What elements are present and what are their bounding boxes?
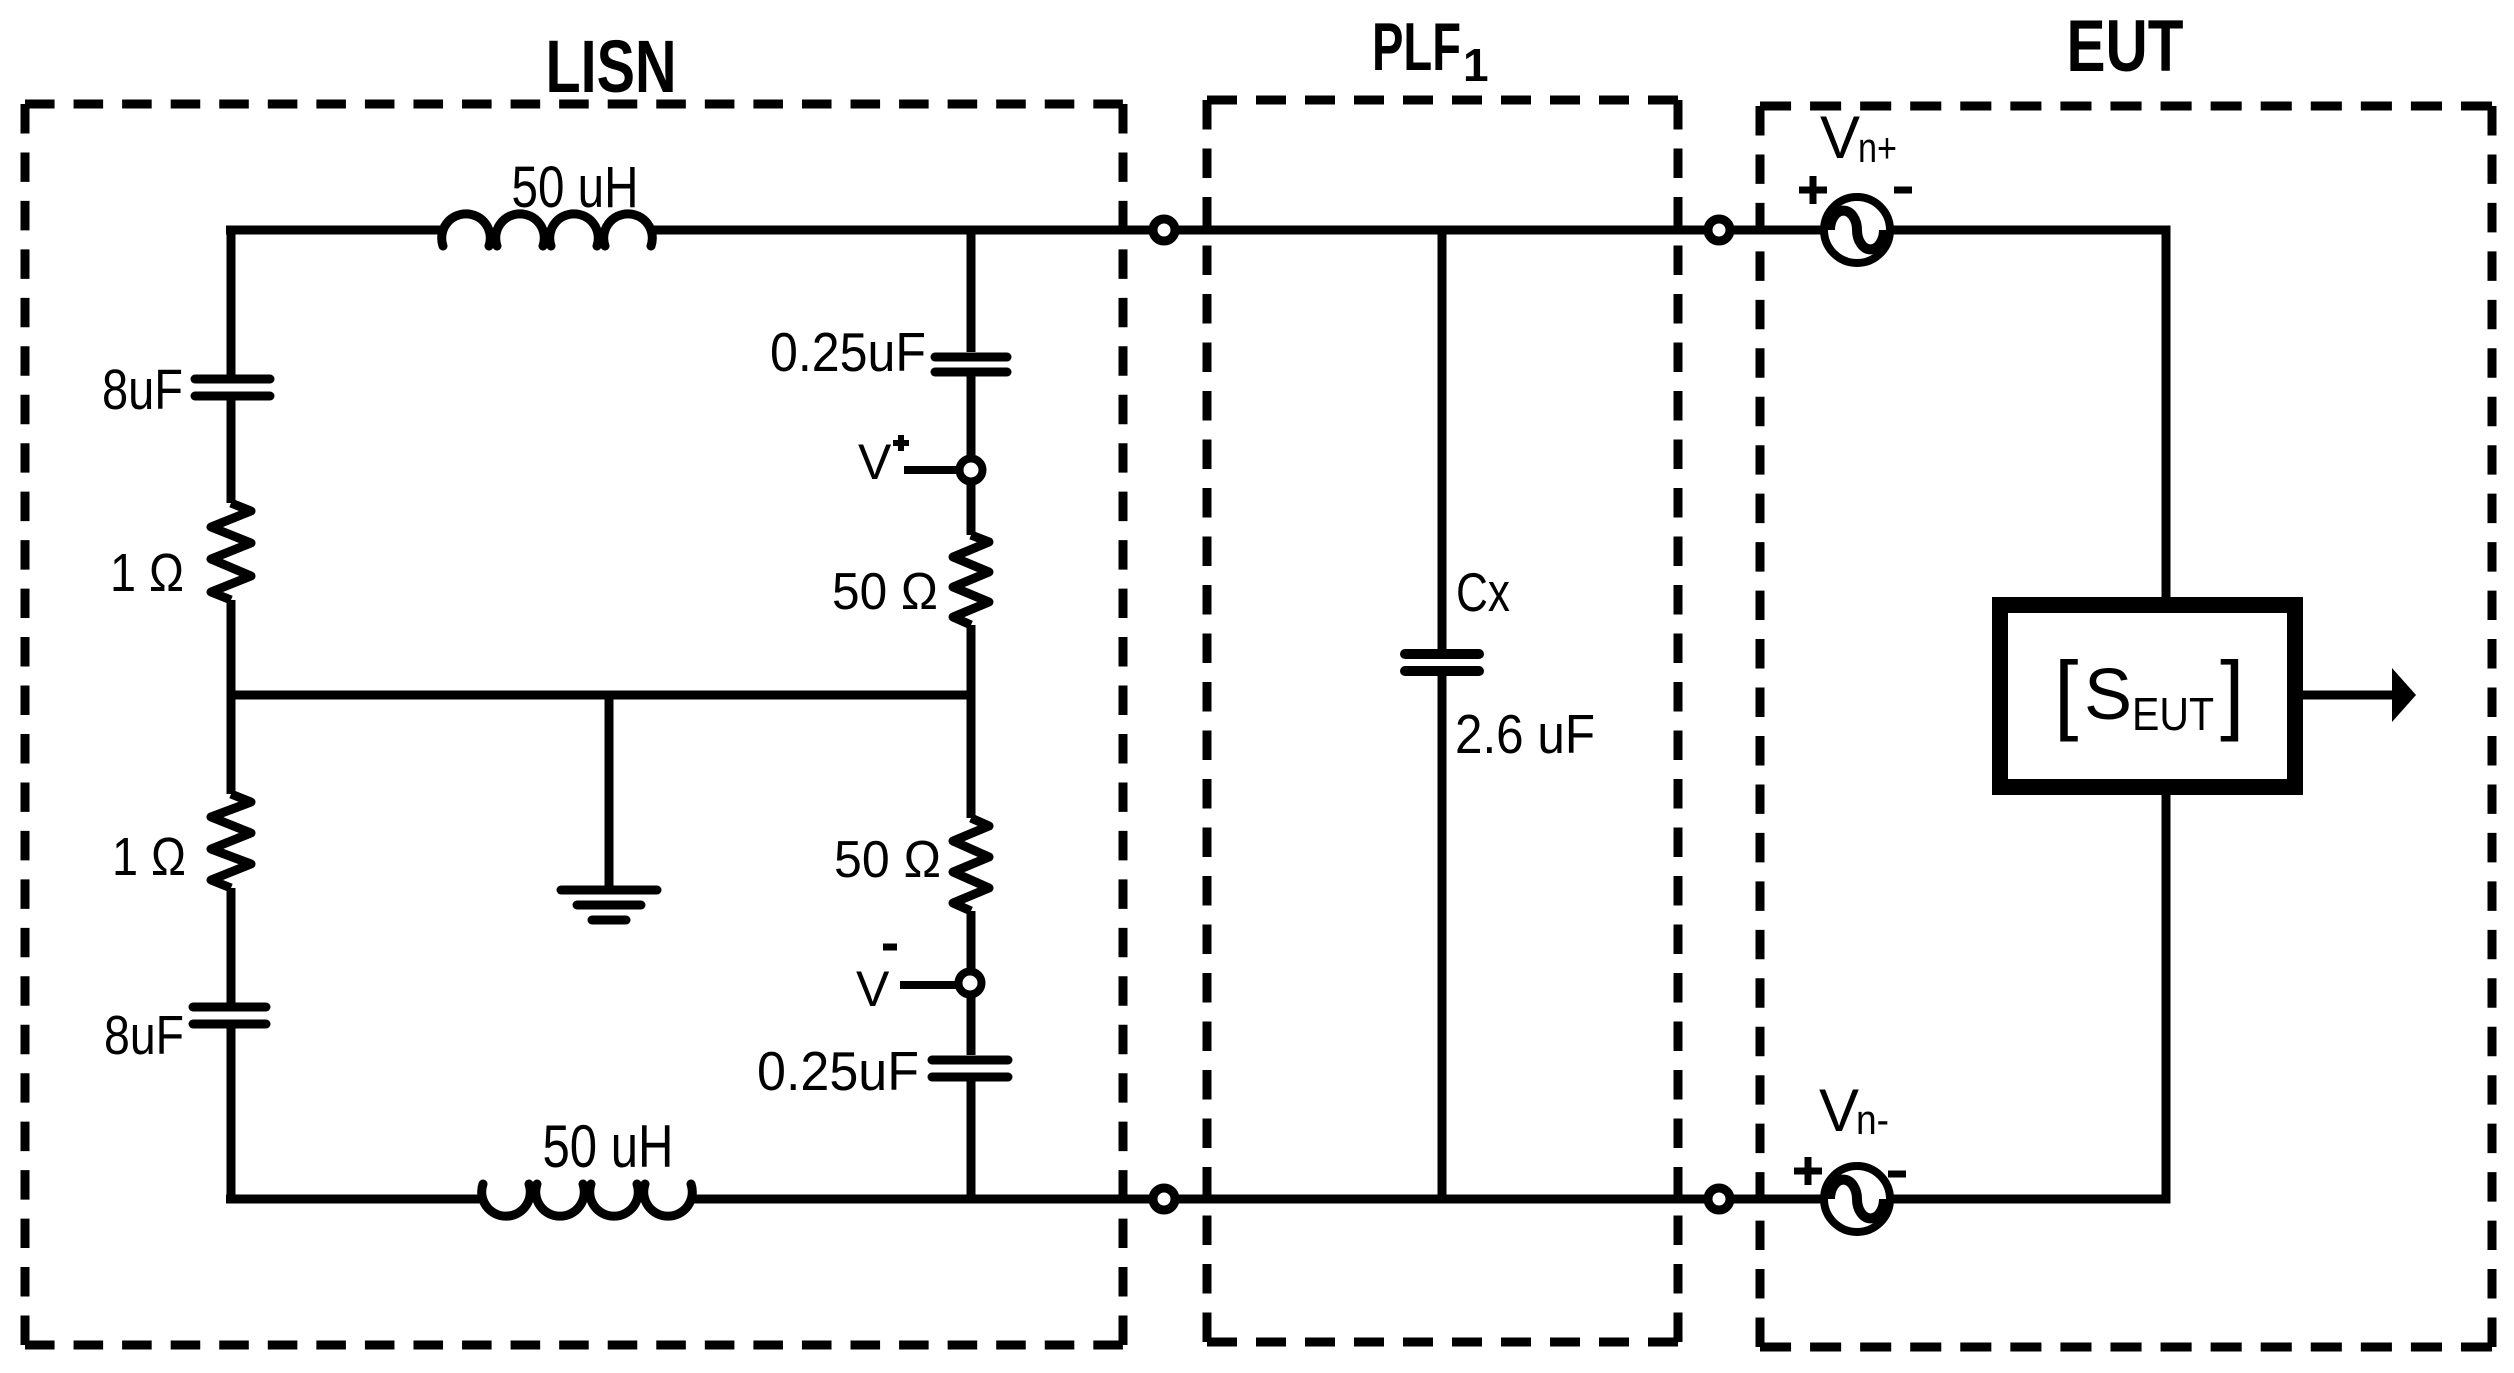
wire left branch upper: [227, 230, 236, 375]
wire V+ tick: [904, 466, 957, 474]
minus sign top source: [1894, 187, 1912, 194]
resistor 50 Ohm top: [953, 535, 989, 625]
svg-text:V: V: [858, 434, 892, 490]
svg-text:8uF: 8uF: [104, 1004, 184, 1066]
arrowhead: [2392, 668, 2416, 722]
wire ground stem: [605, 695, 614, 890]
EUT dashed box: [1760, 106, 2492, 1347]
svg-text:LISN: LISN: [546, 25, 677, 108]
svg-text:1 Ω: 1 Ω: [112, 827, 186, 887]
label V-: [856, 947, 897, 1017]
source Vn-: [1824, 1166, 1890, 1232]
plus sign bottom source: [1794, 1157, 1822, 1185]
resistor 1 Ohm bottom: [211, 794, 251, 888]
wire left branch between cap and resistor: [227, 400, 236, 503]
svg-text:50 uH: 50 uH: [512, 155, 639, 220]
resistor 50 Ohm bottom: [953, 818, 989, 911]
svg-text:V: V: [1819, 1077, 1859, 1144]
LISN dashed box: [25, 104, 1123, 1345]
node bottom PLF-EUT: [1708, 1188, 1730, 1210]
capacitor 0.25uF bottom: [932, 1060, 1008, 1077]
box S_EUT: [2000, 605, 2295, 787]
svg-text:0.25uF: 0.25uF: [757, 1040, 919, 1102]
label PLF1 title: [1372, 9, 1489, 91]
svg-text:S: S: [2084, 655, 2132, 735]
svg-text:50 Ω: 50 Ω: [834, 831, 941, 889]
capacitor Cx: [1405, 654, 1479, 671]
source Vn+: [1824, 197, 1890, 263]
svg-text:n+: n+: [1858, 124, 1897, 171]
svg-text:n-: n-: [1856, 1096, 1889, 1143]
svg-text:2.6 uF: 2.6 uF: [1455, 703, 1595, 765]
wire arrow from box: [2303, 691, 2398, 700]
wire cap to bottom line: [967, 1081, 976, 1199]
wire 50ohm branch from top line: [967, 230, 976, 352]
svg-text:EUT: EUT: [2067, 6, 2184, 87]
label Vn+: [1820, 104, 1897, 171]
wire top line main segment: [648, 226, 1824, 235]
node bottom LISN-PLF: [1153, 1188, 1175, 1210]
svg-text:1 Ω: 1 Ω: [110, 543, 184, 603]
wire node to resistor: [967, 480, 976, 535]
wire V- tick: [900, 981, 957, 989]
svg-text:V: V: [1820, 104, 1860, 171]
svg-text:PLF: PLF: [1372, 9, 1461, 85]
svg-text:[: [: [2054, 643, 2078, 742]
capacitor 8uF top: [195, 379, 270, 396]
node V-: [959, 972, 982, 995]
label Vn-: [1819, 1077, 1889, 1144]
node top PLF-EUT: [1708, 219, 1730, 241]
resistor 1 Ohm top: [211, 503, 251, 600]
svg-text:Cx: Cx: [1456, 561, 1510, 623]
wire top line left segment: [226, 226, 446, 235]
svg-text:50 Ω: 50 Ω: [832, 563, 938, 621]
wire node to bottom cap: [967, 994, 976, 1055]
svg-text:1: 1: [1463, 39, 1489, 91]
wire resistor to V- node: [967, 911, 976, 972]
svg-text:EUT: EUT: [2132, 688, 2214, 740]
wire top line right of source: [1890, 230, 2166, 605]
node V+: [960, 459, 983, 482]
minus sign bottom source: [1888, 1171, 1906, 1178]
wire bottom line right of source: [1890, 795, 2166, 1199]
inductor L2 50uH bottom: [482, 1184, 693, 1216]
wire middle horizontal: [231, 691, 971, 700]
inductor L1 50uH top: [442, 214, 653, 246]
wire left branch through middle junction: [227, 600, 236, 794]
ground: [561, 890, 657, 920]
wire left branch below resistor: [227, 888, 236, 1003]
label V+: [858, 434, 909, 490]
PLF1 dashed box: [1207, 100, 1678, 1342]
wire bottom line left segment: [226, 1195, 486, 1204]
svg-text:8uF: 8uF: [102, 358, 183, 422]
wire Cx branch upper: [1438, 230, 1447, 649]
capacitor 8uF bottom: [193, 1007, 266, 1024]
wire bottom line main segment: [688, 1195, 1824, 1204]
svg-text:0.25uF: 0.25uF: [770, 321, 926, 383]
wire Cx branch lower: [1438, 676, 1447, 1199]
wire left branch to bottom line: [227, 1028, 236, 1199]
wire middle to bottom resistor: [967, 695, 976, 818]
plus sign top source: [1799, 176, 1827, 204]
wire resistor to middle: [967, 625, 976, 695]
capacitor 0.25uF top: [935, 357, 1007, 372]
svg-text:50 uH: 50 uH: [543, 1113, 674, 1180]
svg-text:]: ]: [2220, 643, 2244, 742]
node top LISN-PLF: [1153, 219, 1175, 241]
label [S_EUT]: [2054, 643, 2244, 742]
svg-text:V: V: [856, 961, 890, 1017]
wire cap to V+ node: [967, 376, 976, 459]
